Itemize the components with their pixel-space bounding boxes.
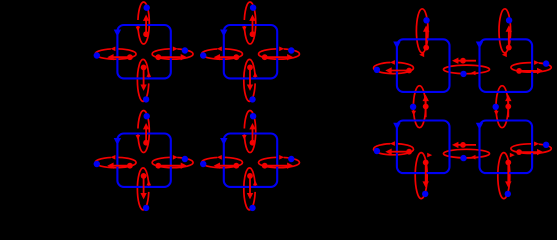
loop arrow P2 left [202, 49, 243, 59]
charge dot P8 bottom [505, 160, 511, 166]
loop head P8 right [534, 142, 539, 147]
charge dot P3 bottom [141, 173, 147, 179]
loop gap P3 top [136, 129, 140, 135]
loop head P7 bottom [427, 153, 432, 158]
loop head P1 bottom [147, 72, 152, 77]
arrowhead P3 right [181, 163, 187, 169]
arrowhead P2 top [249, 15, 255, 21]
loop arrow bond P6-P8 [496, 86, 508, 128]
loop arrow P2 top [244, 2, 255, 44]
arrowhead P5 top [423, 25, 429, 31]
loop gap P1 left [111, 47, 117, 51]
charge dot P3 top [143, 140, 149, 146]
site dot P5 left [374, 67, 380, 73]
arrow shaft P3 right [158, 165, 181, 167]
loop arrow P6 right [511, 63, 551, 73]
loop head P3 top [136, 135, 141, 140]
arrow shaft P1 right [158, 56, 181, 58]
loop arrow P7 left [374, 144, 414, 155]
loop direction arrow P3 [114, 138, 121, 145]
site dot P3 top [144, 113, 150, 119]
arrowhead P2 left [214, 54, 220, 60]
site dot P1 top [144, 5, 150, 11]
charge dot P5 top [423, 45, 429, 51]
loop arrow P1 right [152, 49, 193, 59]
arrowhead P4 right [287, 163, 293, 169]
loop gap P1 right [171, 47, 177, 51]
loop arrow P5 left [374, 62, 414, 73]
loop head P5 left [390, 60, 395, 65]
site dot bond P5-P7 [410, 104, 416, 110]
arrowhead bond P7-P8 [452, 142, 458, 148]
charge dot P5 left [406, 68, 412, 74]
site dot P1 left [94, 52, 100, 58]
loop gap P2 top [242, 20, 246, 26]
arrow shaft bond P5-P7 [425, 100, 427, 117]
charge dot P4 left [233, 163, 239, 169]
loop head P1 right [173, 47, 178, 52]
loop arrow P8 bottom [498, 153, 510, 199]
loop gap P3 left [111, 155, 117, 159]
arrowhead P1 bottom [140, 85, 146, 91]
arrow shaft P2 right [265, 56, 288, 58]
arrowhead P3 left [107, 163, 113, 169]
loop arrow P2 right [259, 49, 300, 59]
arrowhead P3 top [143, 123, 149, 129]
site dot P2 right [288, 47, 294, 53]
arrow shaft bond P5-P6 [458, 60, 477, 62]
arrow shaft P1 bottom [143, 67, 145, 86]
loop arrow P1 left [95, 49, 136, 59]
loop head bond P5-P7 [411, 111, 416, 116]
loop direction arrow P2 [220, 30, 227, 37]
charge dot P4 top [250, 140, 256, 146]
loop arrow P3 left [95, 157, 136, 167]
loop head P6 top [502, 53, 507, 58]
plaquette P4 [224, 134, 277, 187]
loop gap P4 right [278, 155, 284, 159]
loop head P1 top [136, 27, 141, 32]
loop gap P4 left [217, 155, 223, 159]
loop head P4 top [242, 135, 247, 140]
loop gap P3 right [171, 155, 177, 159]
loop arrow bond P7-P8 [444, 149, 490, 158]
arrowhead P8 right [537, 149, 543, 155]
loop head bond P7-P8 [471, 155, 476, 160]
loop head bond P5-P6 [471, 71, 476, 76]
site dot P4 top [250, 113, 256, 119]
loop gap P1 top [136, 20, 140, 26]
loop arrow P4 right [259, 157, 300, 167]
loop head P3 bottom [147, 180, 152, 185]
arrowhead P1 left [107, 54, 113, 60]
plaquette P3 [117, 134, 170, 187]
loop direction arrow P1 [114, 30, 121, 37]
arrowhead P2 bottom [247, 85, 253, 91]
arrowhead P3 bottom [140, 193, 146, 199]
charge dot P3 right [155, 163, 161, 169]
arrow shaft P6 top [508, 31, 510, 47]
site dot P3 right [182, 156, 188, 162]
loop direction arrow P4 [220, 138, 227, 145]
loop gap P2 right [278, 47, 284, 51]
arrowhead P1 right [181, 54, 187, 60]
charge dot bond P5-P6 [460, 58, 466, 64]
loop arrow P6 top [499, 9, 511, 53]
loop arrow P3 top [138, 111, 149, 153]
site dot P8 bottom [505, 191, 511, 197]
loop gap P4 top [242, 129, 246, 135]
loop head bond P6-P8 [494, 111, 499, 116]
charge dot P6 right [516, 68, 522, 74]
loop head P2 left [217, 47, 222, 52]
site dot P3 bottom [143, 205, 149, 211]
loop arrow bond P5-P7 [413, 86, 425, 128]
arrow shaft P5 left [391, 70, 409, 72]
arrowhead P4 bottom [247, 193, 253, 199]
loop arrow P8 right [511, 144, 551, 154]
loop direction arrow P5 [393, 42, 400, 49]
plaquette P7 [397, 121, 450, 174]
charge dot P2 bottom [247, 65, 253, 71]
arrow shaft P8 bottom [507, 162, 509, 182]
arrow shaft P3 bottom [143, 176, 145, 195]
loop direction arrow P6 [476, 42, 483, 49]
charge dot P7 left [406, 149, 412, 155]
loop arrow P7 bottom [415, 153, 427, 199]
loop arrow P3 right [152, 157, 193, 167]
loop gap P8 right [533, 142, 539, 146]
arrowhead bond P5-P7 [423, 95, 429, 101]
arrow shaft P1 left [112, 56, 130, 58]
site dot P3 left [94, 161, 100, 167]
arrow shaft P2 top [252, 19, 254, 35]
site dot bond P6-P8 [493, 104, 499, 110]
arrow shaft P7 bottom [425, 162, 427, 182]
arrowhead P4 top [249, 123, 255, 129]
loop gap P3 bottom [147, 186, 151, 192]
loop gap P5 left [390, 60, 396, 64]
loop head P6 right [534, 60, 539, 65]
loop head P5 top [419, 53, 424, 58]
charge dot P3 left [127, 163, 133, 169]
loop arrow P2 bottom [244, 59, 255, 101]
arrow shaft P4 left [218, 165, 236, 167]
plaquette P2 [224, 25, 277, 78]
arrowhead P6 top [506, 25, 512, 31]
site dot P5 top [423, 17, 429, 23]
arrow shaft P2 left [218, 56, 236, 58]
arrowhead P7 left [385, 149, 391, 155]
loop head P2 bottom [253, 72, 258, 77]
loop arrow P1 bottom [137, 59, 148, 101]
loop gap P4 bottom [253, 186, 257, 192]
loop head P4 bottom [253, 180, 258, 185]
arrow shaft P6 right [519, 70, 538, 72]
site dot P2 bottom [249, 96, 255, 102]
site dot bond P7-P8 [460, 155, 466, 161]
site dot P4 left [200, 161, 206, 167]
charge dot P1 bottom [141, 65, 147, 71]
charge dot bond P7-P8 [460, 142, 466, 148]
charge dot P8 right [516, 149, 522, 155]
loop head P4 left [217, 155, 222, 160]
site dot P6 top [506, 17, 512, 23]
loop gap P1 bottom [147, 77, 151, 83]
arrow shaft P2 bottom [249, 67, 251, 86]
loop head P7 left [390, 141, 395, 146]
arrow shaft P7 left [391, 151, 409, 153]
arrow shaft P3 left [112, 165, 130, 167]
arrow shaft P8 right [519, 151, 538, 153]
loop gap P6 right [533, 60, 539, 64]
arrowhead P2 right [287, 54, 293, 60]
charge dot P7 bottom [423, 160, 429, 166]
site dot P7 bottom [422, 191, 428, 197]
arrowhead bond P6-P8 [505, 95, 511, 101]
charge dot P4 bottom [247, 173, 253, 179]
plaquette P5 [397, 39, 450, 92]
site dot bond P5-P6 [460, 71, 466, 77]
loop direction arrow P8 [476, 123, 483, 130]
loop head P1 left [110, 47, 115, 52]
arrowhead P1 top [143, 15, 149, 21]
charge dot P4 right [262, 163, 268, 169]
site dot P4 bottom [249, 205, 255, 211]
loop head P2 right [279, 47, 284, 52]
site dot P2 left [200, 52, 206, 58]
arrow shaft P4 bottom [249, 176, 251, 195]
arrow shaft P1 top [145, 19, 147, 35]
loop gap P7 left [390, 141, 396, 145]
loop arrow P4 left [202, 157, 243, 167]
arrow shaft P5 top [425, 31, 427, 47]
charge dot P1 right [155, 54, 161, 60]
loop gap P2 bottom [253, 77, 257, 83]
arrow shaft bond P6-P8 [507, 100, 509, 117]
site dot P6 right [543, 60, 549, 66]
loop arrow P4 top [244, 111, 255, 153]
charge dot P1 left [127, 54, 133, 60]
arrow shaft P4 right [265, 165, 288, 167]
loop arrow P1 top [138, 2, 149, 44]
site dot P1 bottom [143, 96, 149, 102]
charge dot P6 top [506, 45, 512, 51]
charge dot P1 top [143, 31, 149, 37]
arrowhead P8 bottom [505, 181, 511, 187]
arrowhead P5 left [385, 67, 391, 73]
plaquette P6 [480, 39, 533, 92]
charge dot P2 right [262, 54, 268, 60]
loop arrow P5 top [416, 9, 428, 53]
arrow shaft P3 top [145, 127, 147, 143]
loop head P3 left [110, 155, 115, 160]
site dot P4 right [288, 156, 294, 162]
loop arrow P4 bottom [244, 168, 255, 210]
arrowhead P6 right [537, 68, 543, 74]
site dot P1 right [182, 47, 188, 53]
charge dot P2 top [250, 31, 256, 37]
loop direction arrow P7 [393, 123, 400, 130]
arrow shaft bond P7-P8 [458, 144, 477, 146]
arrow shaft P4 top [252, 127, 254, 143]
charge dot P2 left [233, 54, 239, 60]
charge dot bond P5-P7 [423, 104, 429, 110]
loop head P2 top [242, 27, 247, 32]
plaquette P8 [480, 121, 533, 174]
arrowhead P4 left [214, 163, 220, 169]
site dot P8 right [543, 142, 549, 148]
loop head P3 right [173, 155, 178, 160]
loop head P8 bottom [510, 153, 515, 158]
arrowhead P7 bottom [423, 181, 429, 187]
arrowhead bond P5-P6 [452, 58, 458, 64]
site dot P7 left [374, 148, 380, 154]
loop head P4 right [279, 155, 284, 160]
loop gap P2 left [217, 47, 223, 51]
site dot P2 top [250, 5, 256, 11]
charge dot bond P6-P8 [505, 104, 511, 110]
loop arrow bond P5-P6 [444, 65, 490, 74]
plaquette P1 [117, 25, 170, 78]
loop arrow P3 bottom [137, 168, 148, 210]
